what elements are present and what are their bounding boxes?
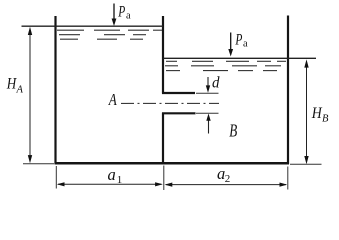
svg-text:A: A [108,90,117,109]
Pa arrow tank B [228,33,233,57]
extension below left wall [55,166,57,189]
svg-text:B: B [229,120,237,140]
HB bottom extension line [290,163,322,165]
nozzle top plate [162,92,195,94]
a1 dimension line [57,182,163,186]
d dimension upper arrow [206,77,210,93]
d bottom extension line [196,112,219,114]
svg-text:H: H [6,76,17,93]
Pa arrow tank A [112,4,117,27]
svg-text:a: a [243,39,248,50]
HB dimension line [304,59,308,164]
svg-text:1: 1 [117,174,123,186]
water surface A with left extension [22,25,164,27]
tank B right wall [287,16,289,165]
HA bottom extension line [23,163,54,165]
divider wall lower segment [162,113,164,164]
a2 dimension line [165,183,288,187]
svg-text:P: P [235,32,243,49]
water dashes tank B [165,61,286,70]
tank bottom [55,162,290,165]
svg-text:B: B [322,114,329,125]
d top extension line [196,92,219,94]
svg-text:a: a [108,165,116,184]
water surface B with right extension [164,57,317,59]
extension below right wall [287,167,289,190]
HA dimension line [28,27,32,164]
svg-text:A: A [16,85,24,96]
water dashes tank A [57,30,162,39]
svg-text:a: a [126,11,131,22]
nozzle centerline [121,102,219,104]
nozzle bottom plate [162,112,196,114]
extension below divider wall [163,166,165,191]
divider wall upper segment [162,16,164,94]
d dimension lower arrow [206,114,210,134]
tank A left wall [54,16,56,164]
svg-text:d: d [212,75,220,92]
svg-text:H: H [311,105,323,122]
svg-text:P: P [118,3,126,20]
svg-text:2: 2 [225,173,231,185]
